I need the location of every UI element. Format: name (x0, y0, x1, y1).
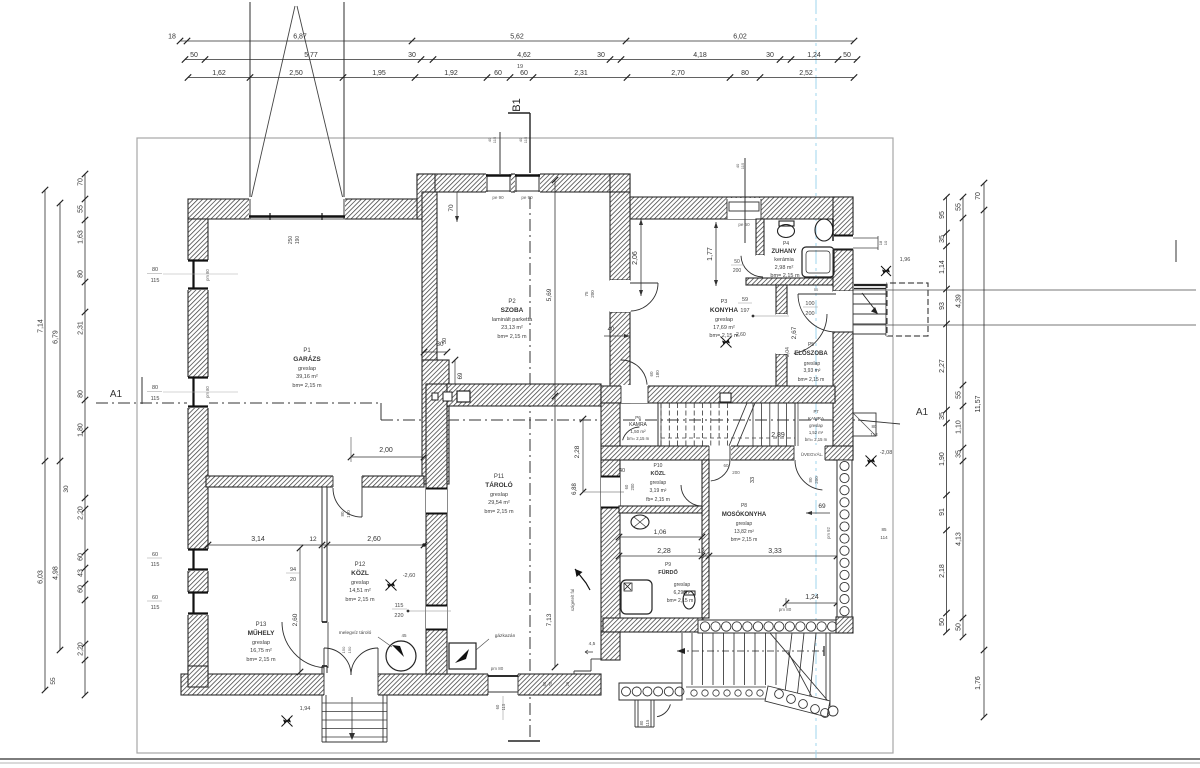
exterior wall left (188, 219, 208, 687)
MUHELY double door arcs (324, 648, 351, 675)
door MOSOKONYHA swing arc (711, 460, 730, 481)
svg-text:35: 35 (956, 450, 963, 458)
svg-text:220: 220 (394, 613, 403, 619)
svg-text:1,94: 1,94 (300, 706, 311, 712)
ZUHANY room washbasin (815, 219, 833, 241)
svg-text:5,62: 5,62 (510, 34, 524, 41)
driveway edge right line (343, 2, 345, 217)
left dimension chain middle (6,79 / 4,98) (59, 203, 61, 650)
svg-text:50: 50 (734, 259, 740, 265)
left dimension chain outer (7,14 / 6,03) (44, 190, 46, 690)
MOSOKONYHA dim 1,24 (786, 602, 837, 604)
stair hall south wall (601, 446, 853, 460)
svg-text:33: 33 (750, 477, 756, 483)
porch canopy dashed outline (887, 283, 928, 336)
exterior wall right mid (833, 250, 853, 291)
FURDO shower tray (621, 580, 652, 614)
door kitchen-hall swing arc (621, 360, 647, 385)
svg-text:115: 115 (645, 719, 650, 726)
svg-text:-2,08: -2,08 (880, 450, 893, 456)
stair handrail dashed (661, 437, 795, 439)
TAROLO east door opening (601, 476, 620, 508)
svg-text:pm 80: pm 80 (779, 607, 792, 612)
svg-text:80: 80 (152, 267, 158, 273)
svg-text:2,00: 2,00 (379, 447, 393, 454)
svg-text:bm= 2,15 m: bm= 2,15 m (497, 334, 527, 340)
entry door opening in right wall (833, 291, 854, 332)
KAMRA door swing (623, 427, 640, 440)
svg-text:70: 70 (78, 178, 85, 186)
exterior wall right lower (833, 332, 853, 460)
svg-text:GARÁZS: GARÁZS (293, 354, 321, 363)
svg-text:P5: P5 (808, 342, 814, 348)
svg-text:50: 50 (956, 623, 963, 631)
svg-text:80: 80 (78, 390, 85, 398)
entry door swing arc (798, 293, 836, 295)
TAROLO west door opening lower (426, 605, 447, 630)
ZUHANY shower tray (802, 247, 834, 277)
svg-text:60: 60 (78, 585, 85, 593)
svg-text:P12: P12 (355, 562, 366, 568)
wall connector below FURDO block (601, 632, 620, 660)
svg-text:2,98 m²: 2,98 m² (775, 265, 794, 271)
svg-text:kerámia: kerámia (774, 257, 795, 263)
small retaining step below (634, 700, 636, 727)
svg-text:KÖZL: KÖZL (651, 470, 667, 477)
svg-text:115: 115 (523, 136, 528, 143)
outdoor survey cross with elevation -2,08 (866, 456, 877, 467)
left wall window 4 (60/115) (187, 592, 209, 615)
svg-text:50: 50 (814, 287, 819, 292)
MUHELY door arc (282, 622, 324, 668)
svg-text:50: 50 (843, 52, 851, 59)
P2 dim 5,69 (554, 180, 556, 396)
svg-text:11,57: 11,57 (975, 395, 982, 412)
svg-text:gázkazán: gázkazán (495, 633, 516, 639)
left wall window 1 (80/115) (187, 260, 209, 290)
porch walk arrow (862, 293, 876, 311)
svg-text:4,98: 4,98 (53, 566, 60, 580)
svg-text:-2,60: -2,60 (403, 573, 416, 579)
svg-text:69: 69 (818, 503, 826, 510)
wall left of TAROLO (426, 384, 447, 674)
svg-text:2,67: 2,67 (791, 326, 798, 339)
svg-text:1,52 m²: 1,52 m² (809, 430, 824, 435)
axis A1 start tick (141, 377, 143, 404)
svg-text:2,31: 2,31 (78, 321, 85, 335)
svg-text:pe 90: pe 90 (492, 195, 504, 200)
svg-text:80: 80 (152, 385, 158, 391)
svg-text:7,13: 7,13 (546, 613, 553, 626)
svg-text:ÜVEGVÁL.: ÜVEGVÁL. (801, 451, 824, 457)
svg-text:2,27: 2,27 (939, 359, 946, 373)
svg-text:2,50: 2,50 (289, 70, 303, 77)
wall 30 dimension (424, 351, 447, 353)
svg-text:39,16 m²: 39,16 m² (296, 374, 318, 380)
svg-text:greslap: greslap (351, 580, 369, 586)
svg-text:bm= 2,15 m: bm= 2,15 m (798, 377, 825, 383)
blue section axis line (815, 0, 817, 758)
svg-text:MŰHELY: MŰHELY (248, 628, 276, 637)
FURDO dim 1,06 (619, 536, 702, 538)
svg-text:4,13: 4,13 (956, 532, 963, 546)
svg-text:60: 60 (520, 70, 528, 77)
axis A1 centerline left part (96, 402, 381, 404)
svg-text:60: 60 (723, 463, 729, 468)
svg-text:45: 45 (401, 633, 407, 638)
kitchen flue line (744, 158, 746, 243)
svg-text:75: 75 (584, 291, 589, 297)
svg-text:bm= 2,15 m: bm= 2,15 m (292, 383, 322, 389)
axis B1 centerline (529, 175, 531, 740)
terrain lines extending right (853, 289, 1196, 291)
svg-text:114: 114 (880, 535, 888, 540)
svg-text:2,06: 2,06 (632, 251, 639, 265)
svg-text:6,03: 6,03 (38, 570, 45, 584)
svg-text:3,14: 3,14 (251, 536, 265, 543)
svg-text:6,87: 6,87 (293, 34, 307, 41)
svg-text:KONYHA: KONYHA (710, 307, 738, 314)
door P2-kitchen swing arc (631, 283, 658, 311)
svg-text:1,10: 1,10 (956, 420, 963, 434)
svg-text:115: 115 (151, 605, 160, 611)
svg-text:P11: P11 (494, 474, 505, 480)
TAROLO dim 2,28 east (582, 419, 584, 492)
driveway slope triangle (251, 6, 295, 199)
svg-text:4,18: 4,18 (693, 52, 707, 59)
hatched corner piece right of landing (836, 617, 853, 633)
exterior stair bottom-right insulated landing top (698, 620, 836, 633)
svg-text:50: 50 (542, 681, 547, 686)
svg-text:30: 30 (442, 338, 448, 344)
svg-text:100: 100 (805, 301, 814, 307)
exterior stair walk line (677, 650, 827, 652)
svg-text:43: 43 (78, 569, 85, 577)
svg-text:greslap: greslap (650, 480, 667, 486)
svg-text:2,60: 2,60 (367, 536, 381, 543)
right door swing arc (795, 460, 822, 490)
svg-text:pm 80: pm 80 (205, 386, 210, 398)
svg-text:20: 20 (290, 577, 296, 583)
svg-text:13,82 m²: 13,82 m² (734, 529, 754, 535)
kitchen dim 2,06 (640, 219, 642, 296)
bottom wall TAROLO door opening (488, 673, 518, 696)
svg-text:pe 60: pe 60 (738, 222, 750, 227)
svg-text:94: 94 (290, 567, 296, 573)
svg-text:2,70: 2,70 (671, 70, 685, 77)
kitchen dim 1,77 (715, 222, 717, 286)
svg-text:95: 95 (939, 211, 946, 219)
exterior stair bottom band with circles (619, 683, 682, 700)
svg-text:190: 190 (295, 236, 301, 245)
top dimension chain row 1 (totals 18/6,87/5,62/6,02) (180, 40, 854, 42)
svg-text:115: 115 (151, 278, 160, 284)
threshold arrow marker (575, 569, 590, 590)
left dimension chain detail (84, 174, 86, 695)
svg-text:60: 60 (624, 484, 629, 489)
kitchen dim 40 bottom (604, 335, 630, 337)
FURDO dim 2,28/12 (619, 555, 709, 557)
svg-text:93: 93 (939, 302, 946, 310)
porch survey cross (881, 266, 891, 276)
ZUHANY south wall (746, 278, 835, 285)
svg-text:30: 30 (63, 485, 70, 493)
svg-text:200: 200 (630, 483, 635, 491)
svg-text:60: 60 (78, 553, 85, 561)
svg-text:150: 150 (341, 646, 346, 653)
exterior wall top (P2 room, raised) (417, 174, 630, 192)
svg-text:KAMRA: KAMRA (808, 416, 824, 421)
svg-text:60: 60 (649, 371, 654, 377)
wall between TAROLO and KOZL/FURDO (601, 403, 620, 446)
small circle strip (686, 686, 766, 688)
top dimension chain row 3 (1,62/2,50/1,95/1,92/60/60/2,31/2,70/80/2,52) (188, 77, 854, 79)
door to MOSOKONYHA opening (709, 445, 731, 461)
corridor wall south of P2 (447, 384, 601, 406)
svg-text:2,28: 2,28 (574, 445, 581, 458)
svg-text:bm= 2,15 m: bm= 2,15 m (805, 437, 828, 442)
svg-text:bm= 2,15 m: bm= 2,15 m (345, 597, 375, 603)
svg-text:50: 50 (190, 52, 198, 59)
svg-text:180: 180 (655, 370, 660, 378)
svg-text:40: 40 (608, 327, 615, 333)
svg-text:4,39: 4,39 (956, 294, 963, 308)
exterior stair bottom-right treads (681, 633, 683, 684)
svg-text:KÖZL: KÖZL (351, 568, 369, 577)
svg-text:A1: A1 (110, 389, 123, 400)
svg-text:20: 20 (548, 681, 553, 686)
svg-text:19: 19 (517, 64, 523, 70)
wall KOZL-FURDO (619, 506, 702, 513)
svg-text:85: 85 (881, 527, 887, 532)
fence lines right of window (853, 237, 878, 239)
svg-text:fb= 2,15 m: fb= 2,15 m (646, 497, 670, 503)
exterior stair fan treads (785, 633, 792, 692)
svg-text:laminált parketta: laminált parketta (492, 317, 533, 323)
svg-text:14,51 m²: 14,51 m² (349, 588, 371, 594)
svg-text:55: 55 (956, 203, 963, 211)
stair survey cross (282, 716, 293, 727)
svg-text:12: 12 (697, 548, 705, 555)
door KOZL-FURDO swing arc (681, 485, 700, 506)
svg-text:pm 80: pm 80 (205, 269, 210, 281)
svg-text:bm= 2,15 m: bm= 2,15 m (246, 657, 276, 663)
svg-text:greslap: greslap (736, 521, 753, 527)
svg-text:greslap: greslap (298, 366, 316, 372)
exterior wall right upper (833, 197, 853, 235)
door to MOSOKONYHA right opening (794, 445, 825, 461)
svg-text:59: 59 (742, 297, 748, 303)
svg-text:2,89: 2,89 (771, 432, 785, 439)
svg-text:55: 55 (78, 205, 85, 213)
exterior stair curved band circles (765, 686, 830, 717)
driveway edge left line (249, 2, 251, 217)
step detail west of FURDO block (591, 658, 601, 660)
svg-text:115: 115 (151, 396, 160, 402)
svg-text:P13: P13 (256, 622, 267, 628)
KAMRA pantry room (657, 403, 659, 446)
chimney marker in wall (720, 393, 731, 402)
left wall window 3 (60/115) (187, 549, 209, 571)
svg-text:ELŐSZOBA: ELŐSZOBA (794, 350, 828, 357)
svg-text:6,88: 6,88 (572, 483, 578, 495)
svg-text:200: 200 (733, 268, 742, 274)
svg-text:bm= 2,15 m: bm= 2,15 m (731, 537, 758, 543)
FURDO block bottom wall (603, 618, 703, 632)
svg-text:1,90: 1,90 (939, 452, 946, 466)
stair down arrow (351, 697, 353, 737)
svg-text:23,13 m²: 23,13 m² (501, 325, 523, 331)
axis B1 leader (508, 112, 530, 114)
svg-text:18: 18 (168, 34, 176, 41)
kitchen top vent opening (727, 198, 761, 219)
axis A1 jog (380, 403, 382, 420)
svg-text:1,14: 1,14 (939, 260, 946, 274)
svg-text:60: 60 (495, 704, 500, 709)
drawing frame (137, 138, 893, 753)
svg-text:FÜRDŐ: FÜRDŐ (658, 569, 678, 576)
svg-text:bm= 2,15 m: bm= 2,15 m (627, 436, 650, 441)
svg-text:80: 80 (78, 270, 85, 278)
MOSOKONYHA dim 69 (806, 512, 830, 514)
svg-text:B1: B1 (511, 98, 523, 111)
svg-text:pe 90: pe 90 (521, 195, 533, 200)
svg-text:35: 35 (939, 412, 946, 420)
axis A1 centerline right part (381, 419, 858, 421)
svg-text:35: 35 (939, 235, 946, 243)
svg-text:greslap: greslap (715, 317, 733, 323)
MUHELY partition door opening (321, 622, 328, 666)
svg-text:115: 115 (151, 562, 160, 568)
svg-text:bm= 2,15 m: bm= 2,15 m (484, 509, 514, 515)
exterior wall bottom (181, 674, 601, 695)
left wall window 2 (80/115) (187, 377, 209, 408)
svg-text:P2: P2 (508, 299, 516, 305)
svg-text:3,93 m²: 3,93 m² (804, 368, 821, 374)
svg-text:1,24: 1,24 (805, 594, 819, 601)
P12 survey cross and elevation (386, 580, 397, 591)
svg-text:3,33: 3,33 (768, 548, 782, 555)
svg-text:3,19 m²: 3,19 m² (650, 488, 667, 494)
svg-text:1,80: 1,80 (78, 423, 85, 437)
svg-text:200: 200 (805, 311, 814, 317)
svg-text:1,95: 1,95 (372, 70, 386, 77)
svg-text:60: 60 (152, 552, 158, 558)
MUHELY double door opening (324, 673, 378, 696)
hot water tank arrow (392, 645, 404, 657)
garage bottom wall (206, 476, 424, 487)
FURDO washbasin (631, 515, 649, 529)
wall MUHELY-P12 (322, 487, 327, 674)
svg-text:7,14: 7,14 (38, 319, 45, 333)
shower room ZUHANY west wall (756, 219, 764, 255)
svg-text:P4: P4 (783, 241, 789, 247)
svg-text:2,18: 2,18 (939, 564, 946, 578)
door kitchen-hall opening (776, 314, 787, 354)
garage door sill (249, 215, 345, 218)
svg-text:5,69: 5,69 (546, 288, 553, 301)
svg-text:60: 60 (152, 595, 158, 601)
hall ELOSZOBA door swing arc (794, 314, 827, 353)
svg-text:70: 70 (975, 192, 982, 200)
svg-text:12: 12 (309, 536, 317, 543)
svg-text:TÁROLÓ: TÁROLÓ (485, 480, 512, 489)
svg-text:40: 40 (619, 468, 625, 474)
svg-text:10: 10 (883, 240, 888, 245)
ZUHANY door swing arc (741, 256, 763, 277)
svg-text:greslap: greslap (674, 582, 691, 588)
flue line above P2 wall (499, 132, 501, 174)
FURDO toilet (683, 591, 695, 609)
svg-text:2,28: 2,28 (657, 548, 671, 555)
wall between garage and room P2 (422, 192, 437, 360)
svg-text:250: 250 (288, 236, 294, 245)
retaining step arc (657, 704, 670, 716)
right dimension chain inner detail (946, 197, 948, 632)
right dimension chain middle (962, 197, 964, 637)
svg-text:16,75 m²: 16,75 m² (250, 648, 272, 654)
svg-text:P8: P8 (741, 503, 747, 509)
svg-text:115: 115 (501, 703, 506, 710)
right dimension chain outer (70 / 11,57 / 1,76) (983, 183, 985, 717)
ZUHANY room toilet (778, 225, 795, 238)
svg-text:80: 80 (340, 511, 345, 517)
exterior wall top-left (garage) (188, 199, 435, 219)
svg-text:KAMRA: KAMRA (629, 422, 647, 428)
top dimension chain row 2 (50/5,77/30/4,62/30/4,18/30/1,24/50) (185, 59, 857, 61)
svg-text:1,06: 1,06 (654, 529, 667, 536)
exterior insulated wall right lower (circle band) (837, 460, 852, 618)
garage door opening (249, 197, 345, 220)
svg-text:197: 197 (740, 308, 749, 314)
svg-text:30: 30 (597, 52, 605, 59)
svg-text:30: 30 (766, 52, 774, 59)
svg-text:200: 200 (590, 290, 595, 298)
svg-text:greslap: greslap (252, 640, 270, 646)
window P2 right (pe 90) (515, 173, 540, 193)
svg-text:50: 50 (939, 618, 946, 626)
svg-text:180: 180 (346, 510, 351, 518)
svg-text:1,63: 1,63 (78, 230, 85, 244)
ZUHANY door opening (756, 255, 764, 278)
svg-text:25: 25 (565, 681, 570, 686)
TAROLO west door opening upper (426, 488, 447, 514)
svg-text:szigetelt fal: szigetelt fal (570, 589, 575, 612)
svg-text:80: 80 (741, 70, 749, 77)
svg-text:1,96: 1,96 (900, 257, 911, 263)
svg-text:bm= 2,15 m: bm= 2,15 m (770, 273, 800, 279)
three column markers in wall (432, 393, 438, 400)
svg-text:4,62: 4,62 (517, 52, 531, 59)
stair break line (737, 403, 755, 446)
svg-text:2,60: 2,60 (292, 613, 299, 626)
wall 69 dimension (454, 360, 456, 392)
svg-text:115: 115 (492, 136, 497, 143)
svg-text:55: 55 (50, 677, 57, 685)
svg-text:greslap: greslap (809, 423, 823, 428)
svg-text:200: 200 (814, 476, 819, 484)
P2 dim 70 top-left (456, 192, 458, 222)
door P2-kitchen opening (610, 280, 630, 312)
kitchen survey cross with elevation -2,60 (721, 337, 732, 348)
MOSOKONYHA dim 3,33 (709, 555, 837, 557)
exterior stair diagonal edge (770, 633, 828, 701)
svg-text:2,20: 2,20 (78, 506, 85, 520)
svg-text:P7: P7 (813, 409, 819, 414)
TAROLO dim 7,13 (554, 396, 556, 667)
kitchen east wall (776, 285, 787, 314)
svg-text:P6: P6 (635, 415, 641, 420)
